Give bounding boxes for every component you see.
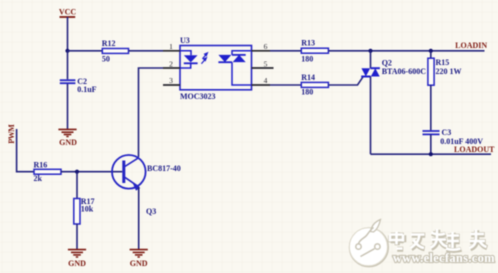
ground GND under Q3 [130, 250, 148, 268]
watermark CJK text 电子发烧友 [390, 229, 487, 250]
wire C2 top [67, 51, 69, 80]
resistor R15 [428, 58, 462, 85]
pin 3 [163, 76, 180, 85]
wire PWM to R16 [17, 129, 34, 172]
svg-text:2: 2 [169, 59, 173, 68]
triac Q2 [361, 51, 426, 154]
svg-text:R15: R15 [436, 58, 450, 67]
wire R16 to Q3 base [61, 171, 122, 173]
power port VCC [59, 8, 77, 17]
optocoupler U3 [180, 36, 252, 101]
svg-text:0.1uF: 0.1uF [77, 85, 96, 94]
svg-text:LOADOUT: LOADOUT [454, 145, 495, 154]
svg-text:3: 3 [169, 76, 173, 85]
svg-text:LOADIN: LOADIN [455, 41, 487, 50]
svg-text:R16: R16 [34, 160, 48, 169]
node junction R16/R17 [75, 170, 79, 174]
capacitor C2 [60, 77, 97, 94]
pin 2 [163, 59, 180, 68]
pin 5 [252, 59, 274, 68]
ground GND under C2 [58, 129, 77, 146]
svg-text:1: 1 [169, 42, 173, 51]
pin 4 [252, 76, 271, 85]
pin 6 [252, 42, 271, 51]
svg-text:C3: C3 [442, 128, 452, 137]
wire R17 bottom [76, 224, 78, 249]
wire C3 bottom [430, 135, 432, 155]
svg-text:220 1W: 220 1W [436, 67, 462, 76]
pin 1 [163, 42, 180, 51]
watermark logo disc [349, 220, 388, 267]
node junction triac top [368, 49, 372, 53]
wire LOADOUT rail [371, 153, 492, 155]
svg-text:VCC: VCC [59, 8, 77, 17]
resistor R12 [102, 39, 129, 63]
svg-text:GND: GND [59, 138, 77, 147]
svg-text:GND: GND [130, 259, 148, 268]
node junction VCC/R12/C2 [65, 49, 69, 53]
svg-text:R14: R14 [301, 73, 315, 82]
resistor R17 [74, 197, 95, 224]
node junction R15 top [429, 49, 433, 53]
wire R12 to U3 pin1 [129, 50, 164, 52]
wire Q3 emitter to GND [138, 187, 140, 249]
ground GND under R17 [68, 250, 86, 268]
transistor Q3 [112, 155, 181, 216]
resistor R14 [301, 73, 328, 97]
svg-text:PWM: PWM [7, 124, 16, 144]
U3 LED emission arrows [201, 53, 207, 64]
svg-text:5: 5 [264, 59, 268, 68]
svg-text:180: 180 [301, 88, 313, 97]
capacitor C3 [423, 128, 484, 146]
svg-text:50: 50 [102, 54, 110, 63]
svg-text:GND: GND [68, 259, 86, 268]
resistor R16 [34, 160, 62, 183]
U3 internal photo-triac [218, 51, 251, 85]
wire pin4 to R14 [270, 84, 301, 86]
wire R14 to Q2 gate [328, 77, 363, 85]
svg-text:www.elecfans.com: www.elecfans.com [393, 251, 495, 265]
svg-text:MOC3023: MOC3023 [180, 92, 216, 101]
svg-text:180: 180 [301, 55, 313, 64]
wire VCC node to R12 [68, 50, 103, 52]
watermark www.elecfans.com [393, 251, 495, 265]
wire C2 bottom [67, 84, 69, 129]
U3 internal LED [180, 51, 198, 68]
svg-text:U3: U3 [180, 36, 190, 45]
svg-text:2k: 2k [34, 174, 43, 183]
node junction C3 bottom [429, 152, 433, 156]
resistor R13 [301, 39, 328, 64]
wire R17 top [76, 172, 78, 199]
svg-text:R12: R12 [102, 39, 116, 48]
svg-text:4: 4 [264, 76, 268, 85]
svg-text:BTA06-600C: BTA06-600C [382, 67, 427, 76]
wire VCC stem [67, 17, 69, 51]
svg-text:R13: R13 [301, 39, 315, 48]
svg-text:6: 6 [264, 42, 268, 51]
wire R13 to LOADIN rail [328, 50, 484, 52]
wire R15 top stub [430, 51, 432, 58]
svg-text:BC817-40: BC817-40 [147, 164, 181, 173]
svg-text:Q2: Q2 [382, 58, 392, 67]
wire R15 to C3 [430, 85, 432, 130]
svg-text:10k: 10k [81, 205, 94, 214]
wire pin6 to R13 [270, 50, 301, 52]
svg-text:Q3: Q3 [146, 207, 156, 216]
wire U3 pin2 to Q3 collector [139, 68, 164, 157]
